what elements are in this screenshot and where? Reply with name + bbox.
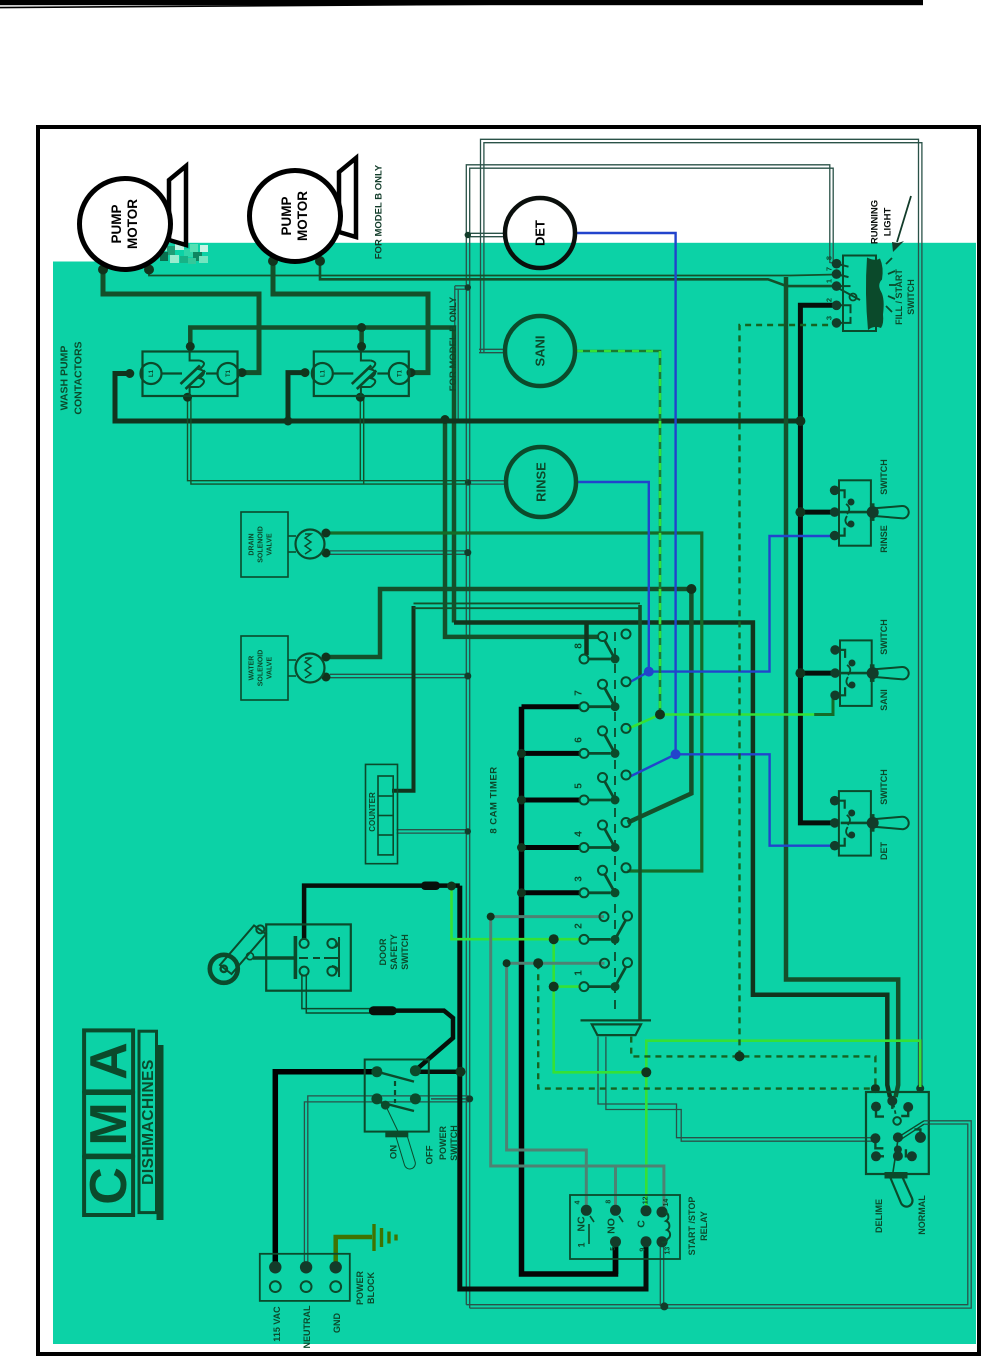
svg-text:NORMAL: NORMAL xyxy=(917,1195,927,1235)
svg-text:GND: GND xyxy=(332,1313,342,1334)
svg-text:3: 3 xyxy=(825,316,834,320)
power block xyxy=(260,1254,350,1301)
svg-text:ON: ON xyxy=(389,1145,400,1159)
wire blue rinse switch branch xyxy=(649,536,835,672)
junction dots on wires xyxy=(98,256,880,1093)
svg-text:SWITCH: SWITCH xyxy=(449,1125,459,1161)
wire fill/start feed black vertical to switches xyxy=(800,305,836,823)
svg-text:T1: T1 xyxy=(226,369,232,377)
wire V4 cam8 upper feed xyxy=(445,420,598,637)
sani dispenser circle xyxy=(505,316,575,386)
svg-text:DOOR: DOOR xyxy=(378,938,388,966)
svg-text:NC: NC xyxy=(576,1216,588,1232)
wire pump motor 1 right lead to fill/start term 7 xyxy=(149,270,836,276)
wire power switch neutral stub xyxy=(431,1098,468,1100)
pump motor M1 xyxy=(80,179,171,270)
wire water solenoid return pair xyxy=(330,673,468,675)
svg-text:MOTOR: MOTOR xyxy=(295,191,310,241)
water solenoid valve xyxy=(241,636,325,700)
svg-text:POWER: POWER xyxy=(438,1126,448,1161)
wire lime relay C and delime xyxy=(646,1041,920,1210)
svg-text:7: 7 xyxy=(825,267,834,271)
wire water solenoid to V3 cam4 xyxy=(326,589,691,657)
svg-text:FILL / START: FILL / START xyxy=(894,269,904,325)
svg-text:SANI: SANI xyxy=(533,335,548,366)
svg-text:RUNNING: RUNNING xyxy=(870,200,881,244)
svg-text:C: C xyxy=(636,1220,648,1228)
camshaft dashed mechanical link xyxy=(614,632,616,1013)
wire sani circle stub xyxy=(479,348,507,350)
delime/normal switch xyxy=(866,1092,929,1207)
rinse switch xyxy=(835,480,909,545)
svg-text:115 VAC: 115 VAC xyxy=(272,1306,282,1342)
fan impeller 1 xyxy=(169,166,186,245)
svg-text:5: 5 xyxy=(610,1247,617,1251)
wire H4 cam8 common feed to V1 delime xyxy=(454,623,890,1098)
svg-text:MOTOR: MOTOR xyxy=(125,199,140,249)
svg-text:DET: DET xyxy=(879,841,889,860)
wire contactor K1 bottom pair to rinse bus xyxy=(188,397,469,481)
svg-text:4: 4 xyxy=(575,1201,582,1205)
wire counter return pair xyxy=(397,829,469,831)
det switch xyxy=(835,791,909,856)
svg-text:COUNTER: COUNTER xyxy=(368,792,377,832)
svg-text:SOLENOID: SOLENOID xyxy=(258,526,265,563)
running light lamp blob xyxy=(866,258,884,331)
svg-text:12: 12 xyxy=(643,1196,650,1204)
wire contactor K2 top riser xyxy=(359,328,364,347)
wire double-line loop to running light (outer) xyxy=(481,139,919,1087)
svg-text:L1: L1 xyxy=(320,369,326,377)
wire contactor K2 bottom pair xyxy=(359,397,361,481)
wire door switch bottom lead (double) to splice xyxy=(302,975,372,1009)
teal background panel xyxy=(53,262,154,1345)
svg-text:13: 13 xyxy=(664,1247,671,1255)
svg-text:FOR MODEL B ONLY: FOR MODEL B ONLY xyxy=(374,164,385,259)
8 cam timer switches xyxy=(580,630,633,992)
contactor K1 xyxy=(141,352,239,397)
svg-text:POWER: POWER xyxy=(355,1271,365,1306)
wire lime to sani switch xyxy=(660,713,814,716)
svg-text:4: 4 xyxy=(574,831,585,837)
wire lime cam1 cam2 commons riser xyxy=(554,939,647,1072)
svg-text:PUMP: PUMP xyxy=(279,196,294,235)
svg-text:M: M xyxy=(80,1102,138,1145)
wire relay terminal 13 drop xyxy=(659,1242,661,1306)
svg-text:C: C xyxy=(80,1167,138,1205)
wire lime door link to cam2 xyxy=(452,886,554,939)
svg-text:9: 9 xyxy=(639,1248,646,1252)
svg-text:PUMP: PUMP xyxy=(109,204,124,243)
wire neutral bottom run to right side xyxy=(466,1124,968,1305)
svg-text:VALVE: VALVE xyxy=(267,533,274,556)
wire drain solenoid return pair xyxy=(330,550,468,552)
wire sani dashed lime to cam6 junction xyxy=(576,351,660,715)
wire dashed green motor branch to delime xyxy=(631,1037,875,1087)
fan impeller 2 xyxy=(339,158,356,237)
svg-text:NEUTRAL: NEUTRAL xyxy=(302,1305,312,1348)
wire rinse switch feed xyxy=(800,510,834,515)
svg-text:SOLENOID: SOLENOID xyxy=(258,650,265,687)
svg-text:2: 2 xyxy=(574,923,585,929)
wire sani switch feed xyxy=(800,671,835,676)
svg-text:WASH PUMP: WASH PUMP xyxy=(59,346,71,411)
wire contactor tops to V4b feed xyxy=(190,328,454,623)
wire blue det circle to cam5 and det switch xyxy=(575,233,835,846)
wire splice to power switch black xyxy=(394,1011,453,1069)
svg-text:DRAIN: DRAIN xyxy=(249,533,256,555)
svg-text:3: 3 xyxy=(574,876,585,882)
splice capsule lower xyxy=(369,1006,397,1015)
sani switch xyxy=(835,640,909,706)
wire H2 pair to timer motor V5 xyxy=(414,602,641,604)
svg-text:LIGHT: LIGHT xyxy=(883,208,894,237)
top page rule xyxy=(0,0,923,5)
svg-text:SWITCH: SWITCH xyxy=(879,459,889,495)
svg-text:RINSE: RINSE xyxy=(534,462,549,502)
svg-text:CONTACTORS: CONTACTORS xyxy=(73,341,85,414)
svg-text:SWITCH: SWITCH xyxy=(906,279,916,315)
contactor K2 xyxy=(312,352,410,397)
rinse dispenser circle xyxy=(506,447,576,517)
svg-text:SWITCH: SWITCH xyxy=(879,619,889,655)
svg-text:RINSE: RINSE xyxy=(879,525,889,553)
svg-text:14: 14 xyxy=(663,1199,670,1207)
svg-text:L1: L1 xyxy=(149,369,155,377)
svg-text:DISHMACHINES: DISHMACHINES xyxy=(140,1059,157,1185)
svg-text:SWITCH: SWITCH xyxy=(400,934,410,970)
wire neutral double-line main vertical xyxy=(465,236,467,1305)
svg-text:OFF: OFF xyxy=(425,1145,436,1164)
svg-text:8 CAM TIMER: 8 CAM TIMER xyxy=(489,766,500,833)
wire cam8 common drop xyxy=(584,623,589,656)
wire ground lead xyxy=(336,1237,372,1267)
timer motor symbol xyxy=(581,1020,652,1035)
power switch xyxy=(365,1060,429,1169)
svg-text:SWITCH: SWITCH xyxy=(879,769,889,805)
wire dashed green cam1 branch to delime xyxy=(538,963,872,1088)
svg-text:RELAY: RELAY xyxy=(699,1211,709,1241)
svg-text:SAFETY: SAFETY xyxy=(389,934,399,970)
junction dots on neutral net xyxy=(464,232,924,1311)
wire pump motor 2 left lead to contactor K2 T1 xyxy=(273,261,428,373)
running light pointer arrow xyxy=(897,196,911,242)
wire power switch to black vertical xyxy=(415,1069,460,1074)
svg-text:START /STOP: START /STOP xyxy=(687,1197,697,1256)
wire pump motor 1 left lead to contactor K1 T1 xyxy=(103,270,259,373)
svg-text:8: 8 xyxy=(606,1200,613,1204)
svg-text:A: A xyxy=(80,1042,138,1080)
svg-text:2: 2 xyxy=(825,298,834,302)
svg-text:8: 8 xyxy=(574,643,585,649)
wire pump bus V2 to delime xyxy=(786,277,898,1097)
door safety switch xyxy=(210,924,351,990)
wire timer motor leads xyxy=(598,1037,874,1138)
svg-text:FOR MODEL B ONLY: FOR MODEL B ONLY xyxy=(448,296,459,391)
svg-text:7: 7 xyxy=(574,690,585,696)
wire black relay NO-5 to cam bus xyxy=(613,1243,619,1274)
wire pump motor 2 right lead to fill/start term 1 xyxy=(320,261,836,286)
svg-text:5: 5 xyxy=(574,783,585,789)
scan artifact mosaic at teal corner xyxy=(157,243,208,264)
splice capsule upper xyxy=(421,882,440,891)
wire neutral riser from power block xyxy=(304,1102,468,1267)
wire blue rinse circle to cam7 xyxy=(576,482,649,672)
wire gray cam2 to relay coil 14 and NO xyxy=(491,917,664,1211)
svg-text:VALVE: VALVE xyxy=(267,657,274,680)
wire main L1 bus to black vertical xyxy=(115,374,800,422)
wire 115vac from power block xyxy=(275,1072,377,1268)
svg-text:NO: NO xyxy=(606,1218,618,1234)
svg-text:1: 1 xyxy=(574,970,585,976)
svg-text:1: 1 xyxy=(825,279,834,283)
fill/start switch xyxy=(837,256,877,332)
wire gray cam1 to relay NC xyxy=(507,963,605,1211)
pump motor M2 xyxy=(250,171,341,262)
wire relay C-9 to power switch black xyxy=(460,886,646,1289)
svg-text:DELIME: DELIME xyxy=(874,1199,884,1233)
wire det circle stub xyxy=(467,232,506,234)
wire blue cam5 diagonal xyxy=(631,754,676,776)
wire dashed green riser to fill/start term 3 xyxy=(740,323,837,1057)
ground symbol xyxy=(374,1224,396,1251)
drain solenoid valve xyxy=(241,512,325,577)
svg-text:WATER: WATER xyxy=(249,656,256,681)
svg-text:1: 1 xyxy=(577,1242,587,1247)
svg-text:6: 6 xyxy=(574,737,585,743)
svg-text:SANI: SANI xyxy=(879,689,889,711)
counter xyxy=(366,764,398,863)
wire lime cam6 diagonal xyxy=(628,715,661,730)
start/stop relay xyxy=(570,1195,680,1259)
svg-text:DET: DET xyxy=(533,220,548,246)
svg-text:T1: T1 xyxy=(397,369,403,377)
svg-text:8: 8 xyxy=(825,256,834,260)
CMA logo xyxy=(80,1030,164,1220)
wire delime blade link to right run xyxy=(924,1120,929,1122)
wire counter feed riser xyxy=(392,606,414,791)
wire double-line loop to fill/start term 8 xyxy=(466,165,836,264)
wire cam bus black with stubs xyxy=(522,707,616,1274)
wire rinse circle stub xyxy=(467,480,507,482)
svg-text:BLOCK: BLOCK xyxy=(366,1272,376,1304)
wire model-B enclosure pair xyxy=(454,286,456,421)
wire contactor K2 L1 drop xyxy=(288,373,305,421)
wire door switch top lead xyxy=(304,886,460,940)
det dispenser circle xyxy=(505,198,575,268)
wire drain solenoid to cam3 xyxy=(326,533,702,871)
